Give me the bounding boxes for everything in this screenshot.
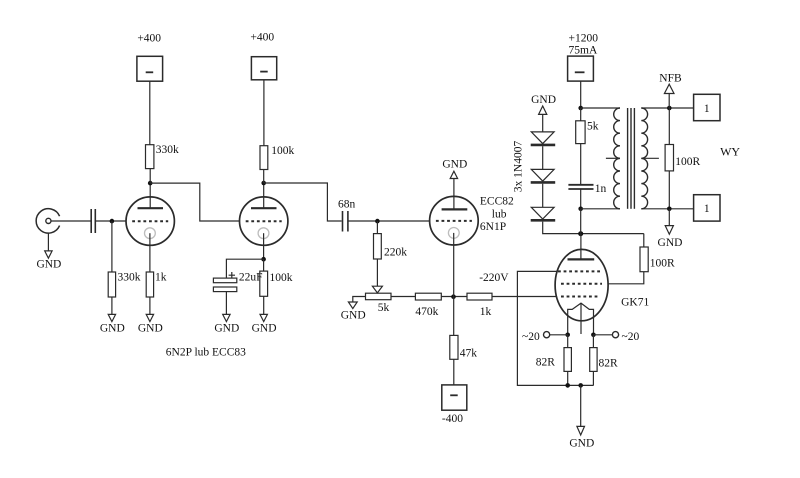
wire V1 anode to V2 grid [150, 183, 239, 221]
svg-text:82R: 82R [599, 357, 619, 369]
resistor 1k (cathode V1) [146, 271, 167, 297]
wire 47k to supply -400 [453, 359, 455, 385]
wire node to R 100k [263, 170, 265, 184]
supply +400 (V1) [137, 32, 163, 81]
wire 100R to bottom node [668, 171, 670, 209]
svg-text:100k: 100k [270, 272, 293, 284]
resistor 100R (output damping) [665, 145, 700, 171]
svg-text:GND: GND [341, 310, 366, 322]
svg-text:75mA: 75mA [569, 44, 598, 56]
node primary bottom [578, 207, 583, 212]
resistor 100k (cathode V2) [260, 271, 293, 296]
svg-text:220k: 220k [384, 246, 407, 258]
svg-text:82R: 82R [536, 356, 556, 368]
resistor 100k (anode load V2) [260, 145, 295, 169]
wire 100k to ground [263, 296, 265, 314]
potentiometer 5k [366, 293, 392, 314]
wire pot left to ground [353, 297, 366, 302]
svg-text:lub: lub [492, 209, 507, 221]
wire node down to ground [668, 209, 670, 226]
svg-text:NFB: NFB [659, 73, 682, 85]
wire 22uF to ground [225, 292, 227, 315]
node rail gnd tap [578, 383, 583, 388]
wire V1 anode up [149, 183, 151, 208]
wire V2 anode to C 68n [264, 183, 342, 221]
svg-text:GND: GND [658, 237, 683, 249]
triode V1 (6N2P half A) [126, 197, 174, 245]
node cathode ECC82 [451, 294, 456, 299]
wire node to C 22uF [226, 259, 263, 278]
input jack J1 [36, 209, 59, 233]
wire node down to anode rail [580, 209, 582, 234]
svg-text:1k: 1k [480, 306, 492, 318]
wire 1k to GK71 grid [492, 296, 556, 298]
svg-text:470k: 470k [415, 306, 438, 318]
primary mid tap stub [606, 157, 620, 159]
svg-text:1: 1 [704, 203, 710, 215]
ground under 22uF [214, 314, 239, 334]
heater terminal right [612, 331, 639, 343]
wire V2 anode up [263, 183, 265, 208]
ground above diode chain [531, 94, 556, 114]
resistor 82R (right) [590, 348, 618, 372]
wire V1 cathode down [149, 233, 151, 272]
wire R330k to ground [111, 297, 113, 314]
wire rail down to R 100R screen [643, 234, 645, 247]
ground at input [36, 251, 61, 271]
svg-text:3x 1N4007: 3x 1N4007 [513, 141, 525, 193]
resistor 330k (grid leak) [108, 271, 141, 297]
svg-text:6N2P lub ECC83: 6N2P lub ECC83 [166, 347, 246, 359]
node heater right [591, 333, 596, 338]
svg-text:~20: ~20 [522, 331, 540, 343]
svg-text:-400: -400 [442, 413, 463, 425]
wire supply to node [580, 81, 582, 108]
NFB terminal arrow [659, 73, 682, 94]
wire left leg to R 82R [567, 335, 569, 348]
triode V2 (6N2P half B) [240, 197, 288, 245]
wire R to supply box [149, 81, 151, 145]
svg-text:100k: 100k [271, 145, 294, 157]
svg-text:GK71: GK71 [621, 297, 649, 309]
svg-text:1k: 1k [155, 271, 167, 283]
svg-text:1: 1 [704, 103, 710, 115]
node NFB [667, 106, 672, 111]
resistor 100R (screen) [640, 247, 675, 272]
output terminal box 1 (top) [694, 94, 720, 120]
wire 100R to GK71 screen grid [608, 272, 644, 284]
svg-text:+400: +400 [250, 32, 274, 44]
svg-text:330k: 330k [118, 271, 141, 283]
wire right leg to terminal [593, 334, 612, 336]
wire 82R to rail [567, 371, 569, 385]
wire 1k to ground [149, 297, 151, 314]
pot wiper arrow [372, 286, 382, 293]
svg-text:GND: GND [214, 322, 239, 334]
svg-text:WY: WY [720, 144, 740, 158]
wire 82R to rail [592, 371, 594, 385]
secondary mid tap stub [641, 157, 659, 159]
ground under 1k [138, 314, 163, 334]
wire D1 to D2 [542, 146, 544, 169]
node cathode V2 [261, 257, 266, 262]
wire anode node to R 330k anode [149, 169, 151, 184]
node GK71 anode rail [578, 231, 583, 236]
supply -400 [442, 385, 467, 425]
svg-text:100R: 100R [650, 257, 675, 269]
wire ECC82 cathode down through node to 47k [453, 233, 455, 336]
supply +400 (V2) [250, 32, 276, 80]
wire 5k to 1n [580, 144, 582, 185]
svg-text:5k: 5k [587, 120, 599, 132]
wire 470k to node [441, 296, 467, 298]
wire 68n to ECC82 grid [348, 220, 430, 222]
svg-text:68n: 68n [338, 199, 356, 211]
resistor 330k (anode load V1) [146, 144, 180, 169]
wire suppressor grid to cathode rail [517, 271, 593, 385]
node rail left [565, 383, 570, 388]
wire node to primary top [581, 107, 620, 109]
wire V2 cathode down [263, 233, 265, 259]
wire D2 to D3 [542, 184, 544, 208]
wire C1 to V1 grid [95, 220, 126, 222]
wire node to primary bottom [581, 208, 620, 210]
svg-text:5k: 5k [378, 302, 390, 314]
output terminal box 1 (bottom) [694, 195, 720, 221]
transformer T1 secondary winding [641, 108, 647, 209]
node grid ECC82 [375, 219, 380, 224]
wire pot to 470k [391, 296, 415, 298]
wire ground to D1 [542, 114, 544, 132]
wire D3 to anode rail [543, 222, 644, 234]
resistor 47k [450, 335, 478, 359]
wire node up to NFB arrow [668, 94, 670, 109]
ground under GK71 [569, 426, 594, 449]
wire NFB node down to R 100R [668, 108, 670, 145]
wire right leg to R 82R [592, 335, 594, 348]
diode D1 (1N4007) [531, 132, 556, 145]
svg-text:6N1P: 6N1P [480, 221, 506, 233]
transformer core [628, 108, 635, 209]
heater terminal left [522, 331, 550, 343]
node +1200 rail [578, 106, 583, 111]
ground under 100k [252, 314, 277, 334]
svg-text:47k: 47k [460, 348, 478, 360]
capacitor 68n (coupling) [338, 199, 356, 232]
svg-text:GND: GND [36, 259, 61, 271]
svg-text:~20: ~20 [622, 331, 640, 343]
wire 220k to pot wiper arrow [376, 259, 378, 286]
GK71 filament [568, 303, 594, 335]
svg-text:+400: +400 [137, 32, 161, 44]
capacitor C1 (input coupling) [91, 209, 95, 233]
wire 1n to bottom node [580, 189, 582, 209]
svg-text:330k: 330k [156, 144, 179, 156]
svg-text:GND: GND [138, 322, 163, 334]
svg-text:1n: 1n [595, 183, 607, 195]
wire R to supply box [263, 80, 265, 146]
wire node down to R 5k [580, 108, 582, 121]
svg-text:-220V: -220V [479, 272, 509, 284]
resistor 220k [374, 234, 408, 259]
diode D2 (1N4007) [531, 169, 556, 182]
ground at pot [341, 302, 366, 322]
svg-text:22uF: 22uF [239, 272, 263, 284]
wire node to R 100k cathode [263, 259, 265, 271]
node heater left [565, 333, 570, 338]
node anode V2 [261, 181, 266, 186]
diode D3 (1N4007) [531, 207, 556, 220]
svg-text:GND: GND [569, 437, 594, 449]
wire node down to R 330k grid [111, 221, 113, 272]
wire node down to R 220k [376, 221, 378, 234]
svg-text:100R: 100R [675, 156, 700, 168]
node secondary bottom [667, 207, 672, 212]
triode U1 ECC82 [430, 196, 514, 245]
wire input to C1 [51, 220, 91, 222]
svg-text:GND: GND [442, 158, 467, 170]
node anode V1 [148, 181, 153, 186]
supply +1200 75mA [568, 33, 599, 81]
tetrode GK71 [555, 249, 649, 320]
resistor 82R (left) [536, 348, 572, 372]
filament centre lead [580, 303, 582, 334]
svg-text:GND: GND [531, 94, 556, 106]
svg-text:GND: GND [100, 322, 125, 334]
resistor 470k [415, 293, 441, 318]
transformer T1 primary winding [614, 108, 620, 209]
wire ECC82 anode up to ground arrow [453, 179, 455, 210]
wire secondary top to output box [641, 107, 693, 109]
wire terminal to left leg [550, 334, 568, 336]
node grid V1 [110, 219, 115, 224]
capacitor 1n (snubber) [568, 183, 606, 195]
ground above ECC82 anode [442, 158, 467, 178]
ground under secondary [658, 226, 683, 249]
wire secondary bottom to output box [641, 208, 693, 210]
svg-text:+1200: +1200 [569, 33, 599, 45]
wire rail to ground [580, 385, 582, 426]
svg-text:ECC82: ECC82 [480, 196, 514, 208]
ground under 330k [100, 314, 125, 334]
resistor 1k (grid stopper GK71) [467, 293, 492, 318]
resistor 5k (snubber) [576, 120, 599, 143]
svg-text:GND: GND [252, 322, 277, 334]
capacitor 22uF (cathode bypass) [213, 272, 262, 292]
wire jack sleeve down [47, 233, 49, 251]
wire GK71 anode to rail [580, 234, 582, 260]
